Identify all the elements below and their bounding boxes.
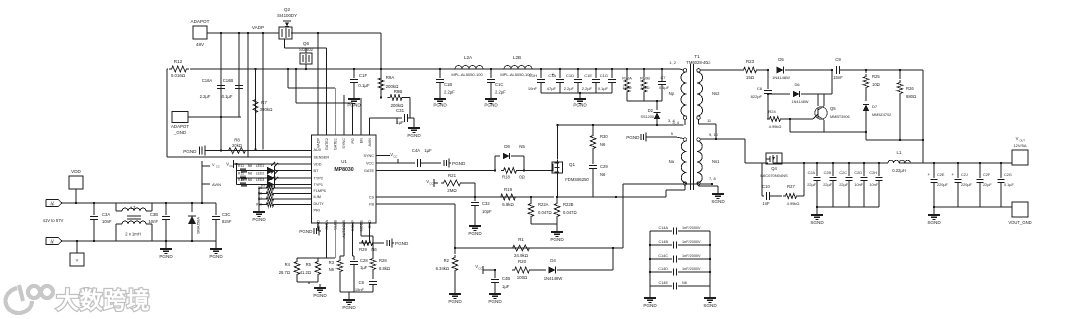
svg-text:Q5: Q5 [830, 106, 836, 111]
svg-text:822pF: 822pF [751, 94, 763, 99]
svg-text:D5: D5 [778, 57, 784, 62]
svg-text:6.34kΩ: 6.34kΩ [436, 266, 449, 271]
svg-text:0.1µF: 0.1µF [659, 85, 670, 90]
svg-text:R22B: R22B [563, 202, 574, 207]
svg-text:0.22µH: 0.22µH [892, 168, 906, 173]
svg-text:R2: R2 [444, 258, 450, 263]
svg-text:T1: T1 [694, 54, 700, 59]
svg-text:GATE1: GATE1 [334, 138, 338, 150]
svg-text:1µF: 1µF [424, 148, 432, 153]
svg-text:2.2µF: 2.2µF [200, 94, 211, 99]
svg-text:D2: D2 [648, 108, 654, 113]
svg-text:LED3: LED3 [256, 178, 265, 182]
svg-text:CC: CC [229, 164, 233, 168]
svg-text:N5: N5 [519, 144, 525, 149]
svg-text:R18: R18 [502, 175, 510, 180]
svg-text:15Ω: 15Ω [746, 75, 755, 80]
svg-text:1nF/2000V: 1nF/2000V [682, 254, 701, 258]
svg-text:C1C: C1C [495, 82, 503, 87]
svg-text:D7: D7 [872, 104, 878, 109]
svg-text:10nF: 10nF [869, 183, 878, 187]
svg-text:28.7Ω: 28.7Ω [279, 270, 290, 275]
svg-text:_GND: _GND [173, 130, 186, 135]
svg-text:Q4: Q4 [771, 166, 777, 171]
svg-text:Q6: Q6 [303, 41, 310, 46]
svg-text:VCC: VCC [366, 162, 374, 166]
svg-text:AVIN: AVIN [368, 138, 372, 147]
svg-text:+: + [951, 172, 954, 177]
svg-text:C1D: C1D [566, 73, 574, 78]
svg-text:AVIN: AVIN [212, 182, 221, 187]
svg-text:4.99kΩ: 4.99kΩ [769, 124, 782, 129]
svg-text:1nF: 1nF [762, 201, 770, 206]
svg-text:PGND: PGND [643, 303, 657, 308]
svg-text:2MΩ: 2MΩ [447, 188, 457, 193]
svg-text:12V/5A: 12V/5A [1013, 143, 1026, 148]
svg-text:PGND: PGND [573, 103, 587, 108]
svg-text:C14C: C14C [658, 254, 668, 258]
svg-text:R7: R7 [261, 100, 267, 105]
svg-text:2 x 1mH: 2 x 1mH [125, 232, 141, 237]
svg-text:DUTY: DUTY [314, 202, 325, 206]
svg-text:C16A: C16A [202, 78, 213, 83]
svg-text:22µF: 22µF [807, 183, 816, 187]
svg-text:R24: R24 [768, 109, 776, 114]
svg-text:Ns2: Ns2 [712, 91, 720, 96]
svg-text:C7: C7 [661, 75, 666, 80]
svg-text:C2E: C2E [937, 173, 945, 177]
svg-text:MM5Z4702: MM5Z4702 [872, 113, 891, 117]
svg-text:390kΩ: 390kΩ [260, 107, 274, 112]
svg-text:220µF: 220µF [961, 183, 973, 187]
svg-text:4.99kΩ: 4.99kΩ [787, 201, 800, 206]
svg-text:VDD: VDD [71, 169, 81, 174]
svg-text:C3B: C3B [150, 212, 158, 217]
svg-text:Na: Na [669, 159, 675, 164]
svg-text:9, 10: 9, 10 [709, 132, 719, 137]
svg-text:Q2: Q2 [284, 7, 291, 12]
svg-text:C1B: C1B [444, 82, 452, 87]
svg-text:10nF: 10nF [528, 86, 538, 91]
svg-text:N6: N6 [248, 178, 252, 182]
svg-text:0.1µF: 0.1µF [598, 86, 609, 91]
svg-text:C2F: C2F [983, 173, 991, 177]
svg-text:15nF: 15nF [355, 287, 365, 292]
svg-text:C2D: C2D [854, 171, 862, 175]
svg-text:EN: EN [359, 138, 363, 144]
svg-text:N6: N6 [682, 281, 687, 285]
svg-text:N6: N6 [600, 172, 606, 177]
svg-text:CC: CC [216, 165, 220, 169]
svg-text:12: 12 [706, 60, 711, 65]
svg-text:R21: R21 [448, 173, 457, 178]
svg-text:R10B: R10B [640, 76, 650, 81]
svg-text:PGND: PGND [448, 299, 462, 304]
svg-text:PGND: PGND [550, 237, 564, 242]
svg-text:R11: R11 [238, 164, 244, 168]
svg-text:PGND: PGND [488, 299, 502, 304]
svg-text:ADAPOT: ADAPOT [191, 19, 210, 24]
svg-text:C3C: C3C [222, 212, 230, 217]
svg-text:FLMP6: FLMP6 [314, 189, 326, 193]
svg-text:V: V [212, 162, 215, 167]
svg-text:1µF: 1µF [502, 284, 510, 289]
svg-text:N6: N6 [600, 142, 606, 147]
svg-text:82nF: 82nF [222, 219, 232, 224]
svg-text:100Ω: 100Ω [517, 275, 528, 280]
svg-text:PGND: PGND [626, 135, 640, 140]
svg-text:10pF: 10pF [482, 209, 492, 214]
svg-text:MMBT3906: MMBT3906 [830, 115, 850, 119]
svg-text:PGND: PGND [468, 231, 482, 236]
svg-text:L2B: L2B [513, 55, 521, 60]
svg-text:R26: R26 [906, 86, 914, 91]
svg-text:N6: N6 [248, 164, 252, 168]
svg-text:C2B: C2B [824, 171, 832, 175]
svg-text:V: V [1016, 136, 1019, 141]
svg-text:C32: C32 [482, 201, 490, 206]
svg-text:B6C070N04NS: B6C070N04NS [760, 173, 788, 178]
svg-text:R20: R20 [518, 259, 527, 264]
svg-text:C14D: C14D [658, 267, 668, 271]
svg-text:SGND: SGND [703, 303, 717, 308]
svg-text:10Ω: 10Ω [872, 82, 880, 87]
svg-text:Ns1: Ns1 [712, 159, 720, 164]
svg-text:1N4148W: 1N4148W [772, 75, 790, 80]
svg-text:SGND: SGND [927, 220, 941, 225]
svg-text:0.016Ω: 0.016Ω [171, 73, 186, 78]
svg-text:PGND: PGND [433, 103, 447, 108]
svg-text:D6: D6 [794, 82, 800, 87]
svg-text:C2C: C2C [839, 171, 847, 175]
svg-text:1N4148W: 1N4148W [544, 276, 563, 281]
svg-text:SENSER: SENSER [314, 156, 330, 160]
svg-text:Np: Np [669, 91, 675, 96]
svg-text:R27: R27 [787, 184, 795, 189]
svg-text:PGND: PGND [407, 133, 421, 138]
svg-text:1nF/2000V: 1nF/2000V [682, 267, 701, 271]
svg-text:SS1200: SS1200 [640, 115, 654, 119]
svg-text:C8: C8 [757, 86, 763, 91]
svg-text:GATE: GATE [364, 169, 375, 173]
svg-text:C1G: C1G [600, 73, 608, 78]
svg-text:R9A: R9A [386, 75, 395, 80]
svg-text:PGND: PGND [313, 293, 327, 298]
svg-text:PRI: PRI [314, 209, 320, 213]
svg-text:C3A: C3A [102, 212, 110, 217]
svg-text:R4: R4 [285, 262, 291, 267]
svg-text:1N4148W: 1N4148W [792, 100, 809, 104]
svg-text:SGND: SGND [711, 199, 725, 204]
svg-text:C2H: C2H [869, 171, 877, 175]
svg-text:C1E: C1E [584, 73, 592, 78]
svg-text:R10A: R10A [622, 76, 632, 81]
svg-text:1, 2: 1, 2 [669, 60, 676, 65]
svg-text:0.047Ω: 0.047Ω [563, 210, 577, 215]
svg-text:0.1µF: 0.1µF [1004, 183, 1014, 187]
svg-text:SGND: SGND [810, 220, 824, 225]
svg-text:R25: R25 [872, 74, 880, 79]
svg-text:VADP: VADP [252, 25, 264, 30]
svg-text:R9B: R9B [394, 89, 403, 94]
svg-text:24.9kΩ: 24.9kΩ [514, 253, 529, 258]
svg-text:C14A: C14A [659, 226, 669, 230]
svg-text:R3: R3 [329, 260, 335, 265]
svg-text:CC: CC [478, 267, 482, 271]
svg-text:1µF: 1µF [360, 265, 368, 270]
svg-text:C4A: C4A [412, 148, 420, 153]
svg-text:CC: CC [429, 182, 433, 186]
svg-text:16kΩ: 16kΩ [622, 85, 631, 90]
svg-text:20kΩ: 20kΩ [232, 143, 242, 148]
svg-text:R12: R12 [238, 172, 244, 176]
svg-text:LED2: LED2 [256, 172, 265, 176]
svg-text:R30: R30 [600, 134, 608, 139]
svg-text:PGND: PGND [209, 254, 223, 259]
svg-text:SMAJ58A: SMAJ58A [197, 217, 201, 234]
svg-text:C2G: C2G [1004, 173, 1012, 177]
svg-text:IN-: IN- [51, 241, 55, 245]
svg-text:D4: D4 [550, 258, 556, 263]
svg-text:C1F: C1F [359, 73, 368, 78]
svg-text:47µF: 47µF [547, 86, 557, 91]
svg-text:22µF: 22µF [823, 183, 832, 187]
svg-text:L3: L3 [131, 205, 136, 210]
svg-text:+: + [552, 72, 555, 78]
svg-text:C9: C9 [835, 57, 841, 62]
svg-text:R19: R19 [504, 187, 513, 192]
svg-text:680Ω: 680Ω [906, 94, 916, 99]
svg-text:PGND: PGND [183, 149, 197, 154]
svg-text:R12: R12 [174, 59, 183, 64]
svg-text:0.1µF: 0.1µF [358, 83, 370, 88]
svg-text:N6: N6 [371, 247, 377, 252]
svg-text:10nF: 10nF [854, 183, 863, 187]
svg-text:220µF: 220µF [937, 183, 949, 187]
svg-text:GATE2: GATE2 [325, 138, 329, 150]
svg-text:R1: R1 [518, 237, 524, 242]
svg-text:V: V [76, 258, 79, 263]
svg-text:2.2µF: 2.2µF [444, 90, 455, 95]
svg-text:IN+: IN+ [51, 203, 56, 207]
svg-text:16kΩ: 16kΩ [640, 85, 649, 90]
svg-text:PGND: PGND [452, 161, 466, 166]
svg-text:6.9kΩ: 6.9kΩ [502, 202, 514, 207]
svg-text:ILIM: ILIM [314, 195, 321, 199]
svg-text:SYNC: SYNC [342, 138, 346, 149]
svg-text:C2A: C2A [808, 171, 816, 175]
svg-text:2.2µF: 2.2µF [582, 86, 593, 91]
svg-text:Q1: Q1 [569, 162, 576, 167]
svg-text:MPL-AL5050-100: MPL-AL5050-100 [451, 72, 483, 77]
svg-text:41.2Ω: 41.2Ω [300, 270, 311, 275]
svg-text:D9: D9 [504, 144, 510, 149]
svg-text:R29: R29 [359, 247, 367, 252]
svg-text:0Ω: 0Ω [519, 175, 524, 180]
svg-text:PGND: PGND [484, 103, 498, 108]
svg-text:U1: U1 [341, 159, 347, 164]
svg-text:0.1µF: 0.1µF [222, 94, 233, 99]
svg-text:C1H: C1H [529, 73, 537, 78]
svg-text:ADAPOT: ADAPOT [171, 124, 189, 129]
svg-text:6.8kΩ: 6.8kΩ [379, 266, 390, 271]
svg-text:22µF: 22µF [839, 183, 848, 187]
svg-text:BT: BT [314, 169, 320, 173]
svg-text:大数跨境: 大数跨境 [56, 287, 150, 313]
svg-text:10nF: 10nF [102, 219, 112, 224]
svg-text:PGND: PGND [299, 229, 313, 234]
svg-text:C6: C6 [359, 280, 365, 285]
svg-text:C31: C31 [396, 108, 405, 113]
svg-text:CC: CC [393, 155, 397, 159]
svg-text:0.047Ω: 0.047Ω [538, 210, 552, 215]
svg-text:3, 4: 3, 4 [672, 120, 679, 125]
svg-text:15nF: 15nF [833, 75, 843, 80]
svg-text:10nF: 10nF [148, 219, 158, 224]
svg-text:VDD: VDD [314, 163, 322, 167]
svg-text:C16B: C16B [223, 78, 234, 83]
svg-text:R22A: R22A [538, 202, 549, 207]
svg-text:C2J: C2J [961, 173, 968, 177]
svg-text:C29: C29 [600, 164, 608, 169]
svg-text:L1: L1 [897, 150, 902, 155]
svg-text:2.2µF: 2.2µF [495, 90, 506, 95]
svg-text:C4B: C4B [502, 276, 510, 281]
svg-text:N6: N6 [329, 267, 335, 272]
svg-text:SI4100DY: SI4100DY [277, 13, 297, 18]
svg-text:FB: FB [369, 203, 374, 207]
svg-text:+: + [927, 172, 930, 177]
svg-text:2.2µF: 2.2µF [564, 86, 575, 91]
svg-text:48V: 48V [196, 42, 205, 47]
svg-text:SYNC: SYNC [363, 154, 374, 158]
svg-text:R8: R8 [234, 138, 240, 143]
svg-text:TYP2: TYP2 [314, 177, 324, 181]
svg-text:C10: C10 [762, 184, 770, 189]
svg-text:TYP1: TYP1 [314, 183, 324, 187]
svg-text:VADP: VADP [316, 138, 320, 149]
svg-text:MP8030: MP8030 [334, 167, 353, 173]
svg-text:22µF: 22µF [983, 183, 992, 187]
svg-text:C14E: C14E [659, 281, 669, 285]
svg-text:R28: R28 [379, 258, 387, 263]
svg-text:N6: N6 [248, 172, 252, 176]
svg-text:OUT: OUT [1020, 139, 1026, 143]
svg-text:7, 8: 7, 8 [709, 176, 716, 181]
svg-text:PGND: PGND [395, 241, 409, 246]
svg-text:1nF/2000V: 1nF/2000V [682, 240, 701, 244]
svg-text:R5: R5 [306, 262, 312, 267]
svg-text:PGND: PGND [159, 254, 173, 259]
svg-text:R23: R23 [746, 59, 755, 64]
svg-text:41V to 57V: 41V to 57V [43, 218, 64, 223]
svg-text:PGND: PGND [342, 305, 356, 310]
svg-text:C28: C28 [360, 258, 368, 263]
svg-text:L2A: L2A [464, 55, 473, 60]
svg-text:LED1: LED1 [256, 164, 265, 168]
svg-text:FDMS86250: FDMS86250 [565, 177, 589, 182]
svg-text:PG: PG [351, 138, 355, 144]
svg-text:1nF/2000V: 1nF/2000V [682, 226, 701, 230]
svg-text:VOUT_GND: VOUT_GND [1008, 220, 1031, 225]
svg-text:MPL-AL5050-100: MPL-AL5050-100 [500, 72, 532, 77]
svg-text:PGND: PGND [252, 217, 266, 222]
svg-text:C14B: C14B [659, 240, 669, 244]
svg-text:CS: CS [369, 196, 375, 200]
